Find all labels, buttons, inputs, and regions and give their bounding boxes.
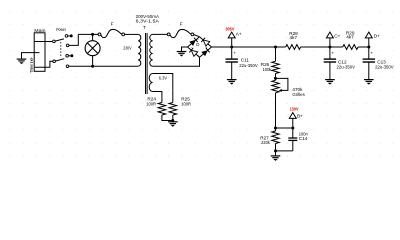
ground B+ divider xyxy=(271,156,281,161)
svg-text:D: D xyxy=(196,42,199,47)
resistor R25 100R xyxy=(169,97,192,115)
svg-text:Main: Main xyxy=(34,28,46,33)
ground C13 xyxy=(364,80,374,85)
svg-text:+: + xyxy=(205,46,207,50)
svg-text:~: ~ xyxy=(197,38,199,42)
svg-text:Power: Power xyxy=(56,27,66,32)
svg-text:+: + xyxy=(331,51,334,56)
wire R24 bottom to R25 bottom xyxy=(162,115,173,121)
svg-text:4k7: 4k7 xyxy=(290,35,298,40)
Main earth pin wire xyxy=(22,53,40,59)
ground C11 xyxy=(227,80,237,85)
svg-text:100R: 100R xyxy=(181,101,191,106)
junction B+ right xyxy=(291,127,294,130)
svg-text:C14: C14 xyxy=(299,136,308,141)
svg-text:220k: 220k xyxy=(261,140,270,145)
flag C+ xyxy=(326,32,333,38)
ground Terre xyxy=(17,59,27,64)
resistor R29 4k7 xyxy=(343,31,358,50)
svg-text:22u-350V: 22u-350V xyxy=(375,65,394,70)
wire top rail (switch to fuse) xyxy=(78,33,99,35)
junction R26 tap xyxy=(274,46,277,49)
bridge diode left-bottom xyxy=(191,50,198,56)
svg-text:C11: C11 xyxy=(241,57,250,62)
wire B+ node rail xyxy=(276,127,293,129)
wire R28 to C+ xyxy=(301,46,343,48)
resistor R28 4k7 xyxy=(286,31,301,49)
svg-text:100k: 100k xyxy=(263,67,273,72)
svg-text:230V: 230V xyxy=(123,46,132,51)
capacitor C12 22u-350V xyxy=(324,47,336,79)
wire R25 bottom to ground xyxy=(172,115,174,122)
junction B+ left xyxy=(274,127,277,130)
svg-text:6.3V: 6.3V xyxy=(159,75,168,80)
resistor R26 100k xyxy=(261,61,280,73)
wire pot to B+ node xyxy=(275,93,277,128)
svg-text:6,3V-1.5A: 6,3V-1.5A xyxy=(136,19,160,24)
capacitor C11 22u-350V xyxy=(226,47,238,79)
svg-text:B+: B+ xyxy=(297,113,303,118)
ground heater humdinger xyxy=(168,122,178,127)
Main pin 1 wire xyxy=(35,41,52,43)
bridge diode left-top xyxy=(189,40,196,46)
resistor R27 220k xyxy=(260,128,279,151)
connector J1 Main xyxy=(34,28,46,71)
wire 6.3V bottom lead to R24 xyxy=(153,92,162,103)
svg-text:Terre: Terre xyxy=(29,57,34,74)
svg-text:22u-350V: 22u-350V xyxy=(239,63,258,68)
junction bottom at lamp xyxy=(91,65,94,68)
bridge diode top-right xyxy=(203,40,210,46)
node A+ junction xyxy=(230,46,233,49)
ground C12 xyxy=(325,80,335,85)
wire bridge left to ground xyxy=(182,47,188,51)
svg-text:4k7: 4k7 xyxy=(346,35,354,40)
svg-text:F: F xyxy=(111,21,114,26)
junction ground node xyxy=(274,149,277,152)
Main pin 2 wire xyxy=(35,61,53,67)
ground bridge negative xyxy=(177,52,187,57)
svg-text:100R: 100R xyxy=(146,101,156,106)
svg-text:22u-350V: 22u-350V xyxy=(337,65,356,70)
flag A+ xyxy=(228,32,235,38)
svg-text:+: + xyxy=(233,51,236,56)
node D+ junction xyxy=(367,46,370,49)
wire fuse1 to transformer primary xyxy=(125,33,139,35)
potentiometer P1 470k Grilles xyxy=(272,78,306,97)
capacitor C14 100n xyxy=(288,128,308,151)
svg-text:Grilles: Grilles xyxy=(292,92,305,97)
junction pot top/wiper xyxy=(274,77,277,80)
resistor R24 100R xyxy=(146,97,165,115)
flag B+ xyxy=(289,113,296,119)
wire R29 to D+ xyxy=(358,46,369,48)
wire secondary top to fuse2 xyxy=(153,33,169,35)
bridge diode bottom-right xyxy=(201,50,208,56)
wire D+ flag stem xyxy=(368,38,370,47)
wire secondary bottom to bridge bottom xyxy=(153,57,200,66)
node C+ junction xyxy=(328,46,331,49)
junction top at lamp xyxy=(91,33,94,36)
wire bridge to A+ node xyxy=(212,46,286,48)
svg-text:C+: C+ xyxy=(334,33,340,38)
bridge rectifier D xyxy=(188,37,212,58)
fuse F1 (primary) xyxy=(98,21,125,37)
junction R24/R25 xyxy=(171,119,174,122)
wire pole1 lower throw to top rail xyxy=(69,34,78,45)
svg-text:130V: 130V xyxy=(290,107,299,112)
flag D+ xyxy=(365,32,372,38)
wire 6.3V top lead to R25 xyxy=(153,74,173,103)
wire bottom rail (switch to transformer) xyxy=(69,65,139,67)
svg-text:~: ~ xyxy=(197,54,199,58)
svg-text:305V: 305V xyxy=(225,26,235,31)
capacitor C13 22u-350V xyxy=(363,47,375,79)
svg-text:D+: D+ xyxy=(374,33,380,38)
fuse F2 (HT secondary) xyxy=(167,21,194,37)
svg-text:A+: A+ xyxy=(236,32,242,37)
wire rail to R26 xyxy=(275,47,277,61)
wire R26 to pot xyxy=(275,74,277,81)
transformer T1 xyxy=(123,14,167,94)
wire B+ flag stem xyxy=(292,118,294,128)
wire A+ flag stem xyxy=(231,38,233,47)
wire C14 bottom to ground node xyxy=(276,150,293,152)
switch SW1 Power (DPDT) xyxy=(53,27,74,67)
svg-text:+: + xyxy=(370,51,373,56)
wire C+ flag stem xyxy=(329,38,331,47)
wire to ground xyxy=(275,151,277,156)
wire fuse2 to bridge top xyxy=(194,35,200,37)
lamp LA1 xyxy=(85,34,100,66)
svg-text:T: T xyxy=(143,25,146,30)
svg-text:F: F xyxy=(180,21,183,26)
